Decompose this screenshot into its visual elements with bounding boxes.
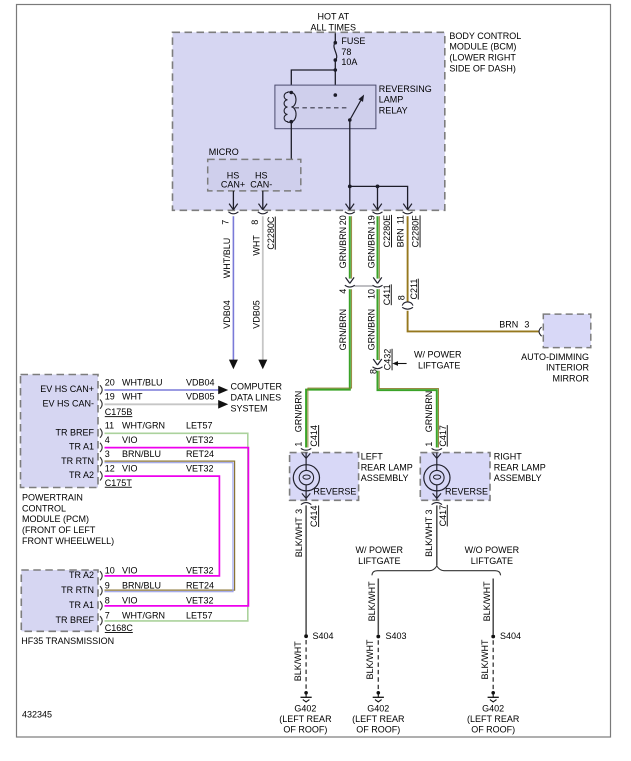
svg-text:BRN/BLU: BRN/BLU bbox=[122, 449, 161, 459]
svg-text:CONTROL: CONTROL bbox=[22, 503, 66, 513]
svg-text:8: 8 bbox=[397, 295, 407, 300]
svg-text:VIO: VIO bbox=[122, 463, 138, 473]
svg-text:SIDE OF DASH): SIDE OF DASH) bbox=[449, 63, 516, 73]
svg-text:GRN/BRN: GRN/BRN bbox=[367, 227, 377, 269]
svg-text:BLK/WHT: BLK/WHT bbox=[293, 641, 303, 682]
svg-text:8: 8 bbox=[250, 220, 260, 225]
svg-text:11: 11 bbox=[105, 421, 114, 431]
svg-text:SYSTEM: SYSTEM bbox=[231, 403, 268, 413]
right lamp connector bottom bbox=[432, 503, 442, 505]
svg-text:LIFTGATE: LIFTGATE bbox=[358, 556, 400, 566]
wire GRN/BRN pin20 upper segment bbox=[338, 216, 352, 278]
svg-text:3: 3 bbox=[524, 320, 529, 330]
svg-text:VDB05: VDB05 bbox=[186, 392, 215, 402]
inline connector C211 bbox=[397, 279, 419, 310]
svg-text:(FRONT OF LEFT: (FRONT OF LEFT bbox=[22, 525, 96, 535]
svg-text:1: 1 bbox=[293, 442, 303, 447]
PCM pin TR A1 bbox=[69, 435, 214, 452]
svg-text:EV HS CAN-: EV HS CAN- bbox=[42, 398, 94, 408]
svg-text:TR A2: TR A2 bbox=[69, 570, 94, 580]
svg-text:G402: G402 bbox=[367, 704, 389, 714]
svg-text:VET32: VET32 bbox=[186, 565, 214, 575]
BCM exit connector pin 19 bbox=[373, 204, 383, 214]
left lamp connector bottom bbox=[301, 503, 311, 505]
svg-text:3: 3 bbox=[294, 509, 304, 514]
wire GRN/BRN pin19 to right lamp bbox=[378, 371, 448, 448]
wire WHT/GRN LET57 loop bbox=[105, 433, 248, 621]
svg-text:10: 10 bbox=[105, 565, 115, 575]
svg-text:C432: C432 bbox=[383, 349, 393, 371]
svg-text:CAN-: CAN- bbox=[250, 180, 272, 190]
svg-text:7: 7 bbox=[221, 220, 231, 225]
svg-text:VET32: VET32 bbox=[186, 595, 214, 605]
wire GRN/BRN pin19 upper segment bbox=[367, 216, 380, 278]
svg-text:GRN/BRN: GRN/BRN bbox=[293, 391, 303, 433]
dashed wire to ground middle bbox=[365, 639, 378, 691]
svg-text:HOT AT: HOT AT bbox=[317, 12, 349, 22]
svg-text:C211: C211 bbox=[409, 279, 419, 300]
svg-text:BLK/WHT: BLK/WHT bbox=[294, 517, 304, 558]
svg-text:BLK/WHT: BLK/WHT bbox=[424, 516, 434, 557]
svg-text:BLK/WHT: BLK/WHT bbox=[482, 581, 492, 622]
svg-text:LET57: LET57 bbox=[186, 421, 213, 431]
svg-text:LAMP: LAMP bbox=[379, 95, 404, 105]
svg-text:20: 20 bbox=[105, 377, 115, 387]
svg-text:RELAY: RELAY bbox=[379, 105, 408, 115]
svg-text:VIO: VIO bbox=[122, 435, 138, 445]
svg-text:10: 10 bbox=[367, 289, 377, 299]
wire from hot feed to fuse bbox=[334, 33, 336, 43]
PCM pin TR A2 bbox=[69, 463, 214, 480]
junction node bbox=[334, 68, 338, 72]
svg-text:WHT: WHT bbox=[122, 392, 143, 402]
relay label bbox=[379, 84, 432, 116]
svg-text:VET32: VET32 bbox=[186, 435, 214, 445]
splice S403 bbox=[376, 631, 406, 641]
svg-text:LIFTGATE: LIFTGATE bbox=[471, 556, 513, 566]
brace split bbox=[372, 566, 501, 575]
W/O POWER LIFTGATE label (right branch) bbox=[465, 545, 520, 566]
wire WHT/BLU VDB04 vertical bbox=[222, 216, 238, 369]
body control module BCM box bbox=[173, 32, 445, 210]
svg-text:EV HS CAN+: EV HS CAN+ bbox=[40, 384, 94, 394]
splice S404 right bbox=[491, 631, 521, 641]
right rear lamp assembly box bbox=[420, 452, 546, 501]
wire fuse to junction bbox=[334, 60, 336, 95]
svg-text:W/O POWER: W/O POWER bbox=[465, 545, 520, 555]
svg-text:TR RTN: TR RTN bbox=[61, 585, 94, 595]
wire WHT VDB05 vertical bbox=[252, 216, 268, 369]
svg-text:78: 78 bbox=[341, 47, 351, 57]
svg-text:AUTO-DIMMING: AUTO-DIMMING bbox=[521, 352, 589, 362]
HF35 pin TR A1 bbox=[69, 595, 214, 610]
svg-text:(LEFT REAR: (LEFT REAR bbox=[279, 714, 332, 724]
left lamp connector top bbox=[301, 448, 311, 450]
wire switch to junction row bbox=[349, 120, 351, 186]
svg-text:C414: C414 bbox=[309, 505, 319, 527]
HF35 transmission box bbox=[21, 570, 98, 631]
wire VIO VET32 inner loop bbox=[105, 476, 220, 576]
svg-text:GRN/BRN: GRN/BRN bbox=[338, 227, 348, 269]
inline connector C432 bbox=[369, 349, 393, 374]
wire coil to micro bbox=[290, 122, 292, 160]
svg-text:FUSE: FUSE bbox=[341, 36, 365, 46]
svg-text:S404: S404 bbox=[313, 631, 334, 641]
svg-text:GRN/BRN: GRN/BRN bbox=[424, 391, 434, 433]
svg-text:WHT/BLU: WHT/BLU bbox=[222, 238, 232, 279]
wire BLK/WHT left lamp to splice S404 bbox=[294, 505, 319, 634]
svg-text:RIGHT: RIGHT bbox=[494, 452, 523, 462]
svg-text:TR A1: TR A1 bbox=[69, 600, 94, 610]
splice S404 left bbox=[304, 631, 333, 641]
ground G402 middle bbox=[352, 691, 405, 735]
BCM exit connector pin 7 bbox=[228, 204, 238, 214]
svg-text:REVERSE: REVERSE bbox=[313, 487, 356, 497]
PCM pin EV HS CAN+ bbox=[40, 377, 214, 394]
node COMPUTER DATA LINES SYSTEM bbox=[231, 382, 283, 414]
svg-text:(LEFT REAR: (LEFT REAR bbox=[352, 714, 405, 724]
svg-text:OF ROOF): OF ROOF) bbox=[283, 725, 327, 735]
svg-text:VDB05: VDB05 bbox=[252, 300, 262, 329]
ground G402 right bbox=[467, 691, 520, 735]
svg-text:OF ROOF): OF ROOF) bbox=[471, 725, 515, 735]
BCM label bbox=[449, 31, 521, 73]
svg-text:BRN/BLU: BRN/BLU bbox=[122, 580, 161, 590]
svg-text:MODULE (PCM): MODULE (PCM) bbox=[22, 514, 89, 524]
svg-text:G402: G402 bbox=[294, 704, 316, 714]
svg-text:TR BREF: TR BREF bbox=[55, 615, 94, 625]
HF35 pin TR RTN bbox=[61, 580, 214, 595]
ground G402 left bbox=[279, 691, 332, 735]
HF35 pin TR A2 bbox=[69, 565, 214, 580]
svg-text:REAR LAMP: REAR LAMP bbox=[361, 462, 413, 472]
wire GRN/BRN pin19 lower segment bbox=[367, 289, 380, 360]
svg-text:3: 3 bbox=[105, 449, 110, 459]
svg-text:WHT/GRN: WHT/GRN bbox=[122, 421, 165, 431]
reversing lamp relay box bbox=[275, 85, 376, 129]
svg-text:FRONT WHEELWELL): FRONT WHEELWELL) bbox=[22, 536, 114, 546]
fuse 78 10A bbox=[334, 36, 366, 67]
wire BRN pin11 upper segment bbox=[407, 216, 409, 302]
svg-text:MODULE (BCM): MODULE (BCM) bbox=[449, 42, 516, 52]
svg-text:C2280C: C2280C bbox=[266, 216, 276, 250]
svg-text:MIRROR: MIRROR bbox=[553, 373, 590, 383]
PCM label bbox=[22, 493, 114, 546]
svg-text:C175T: C175T bbox=[105, 478, 133, 488]
auto-dimming interior mirror box bbox=[543, 314, 591, 348]
HF35 pin TR BREF bbox=[55, 610, 212, 625]
mirror label bbox=[521, 352, 589, 384]
wire VIO VET32 outer loop bbox=[105, 448, 249, 606]
svg-text:TR A2: TR A2 bbox=[69, 470, 94, 480]
svg-text:REVERSING: REVERSING bbox=[379, 84, 432, 94]
svg-text:LIFTGATE: LIFTGATE bbox=[418, 360, 460, 370]
svg-text:3: 3 bbox=[424, 509, 434, 514]
powertrain control module PCM box bbox=[21, 375, 99, 488]
wire BRN/BLU RET24 loop bbox=[105, 461, 235, 592]
PCM pin TR RTN bbox=[61, 449, 214, 466]
right lamp connector top bbox=[432, 448, 442, 450]
svg-text:C414: C414 bbox=[309, 425, 319, 447]
svg-text:BLK/WHT: BLK/WHT bbox=[365, 639, 375, 680]
svg-text:C175B: C175B bbox=[105, 407, 133, 417]
wire WHT to data lines bbox=[105, 403, 219, 405]
svg-text:BODY CONTROL: BODY CONTROL bbox=[449, 31, 521, 41]
svg-text:REAR LAMP: REAR LAMP bbox=[494, 462, 546, 472]
svg-text:S403: S403 bbox=[386, 631, 407, 641]
svg-text:8: 8 bbox=[105, 595, 110, 605]
svg-text:19: 19 bbox=[105, 392, 115, 402]
inline connector C411 bbox=[338, 277, 392, 305]
svg-text:VET32: VET32 bbox=[186, 463, 214, 473]
BCM exit connector pin 20 bbox=[345, 204, 355, 214]
svg-text:10A: 10A bbox=[341, 57, 357, 67]
svg-text:7: 7 bbox=[105, 610, 110, 620]
svg-text:WHT/GRN: WHT/GRN bbox=[122, 610, 165, 620]
svg-text:ALL TIMES: ALL TIMES bbox=[311, 22, 357, 32]
svg-text:C168C: C168C bbox=[105, 623, 134, 633]
micro pin HS CAN- bbox=[250, 170, 272, 189]
svg-text:TR BREF: TR BREF bbox=[55, 427, 94, 437]
svg-text:C417: C417 bbox=[438, 425, 448, 447]
W/ POWER LIFTGATE label (middle branch) bbox=[356, 545, 404, 566]
left rear lamp assembly box bbox=[290, 452, 413, 501]
svg-text:VIO: VIO bbox=[122, 595, 138, 605]
wire junction to coil bbox=[291, 70, 335, 93]
svg-text:ASSEMBLY: ASSEMBLY bbox=[361, 473, 409, 483]
svg-text:BRN: BRN bbox=[499, 320, 518, 330]
svg-text:C411: C411 bbox=[382, 284, 392, 305]
right reverse bulb bbox=[424, 453, 450, 501]
svg-text:(LEFT REAR: (LEFT REAR bbox=[467, 714, 520, 724]
micro output wires to BCM edge bbox=[232, 191, 234, 210]
svg-text:432345: 432345 bbox=[22, 710, 52, 720]
svg-text:LEFT: LEFT bbox=[361, 452, 384, 462]
wire GRN/BRN pin20 to left lamp bbox=[293, 289, 351, 447]
svg-text:VIO: VIO bbox=[122, 565, 138, 575]
relay mechanical link (dashed) bbox=[295, 107, 350, 109]
svg-text:4: 4 bbox=[338, 289, 348, 294]
relay switch bbox=[334, 93, 365, 122]
junction row wire bbox=[348, 185, 408, 210]
svg-text:W/ POWER: W/ POWER bbox=[356, 545, 404, 555]
svg-text:TR RTN: TR RTN bbox=[61, 456, 94, 466]
svg-text:TR A1: TR A1 bbox=[69, 442, 94, 452]
svg-text:LET57: LET57 bbox=[186, 610, 213, 620]
dashed wire to ground right bbox=[480, 639, 493, 691]
svg-text:WHT: WHT bbox=[252, 235, 262, 256]
svg-text:OF ROOF): OF ROOF) bbox=[356, 725, 400, 735]
svg-text:MICRO: MICRO bbox=[209, 147, 239, 157]
relay coil bbox=[284, 91, 296, 124]
svg-text:VDB04: VDB04 bbox=[186, 377, 215, 387]
svg-text:REVERSE: REVERSE bbox=[445, 487, 488, 497]
svg-text:BLK/WHT: BLK/WHT bbox=[367, 581, 377, 622]
svg-text:11: 11 bbox=[395, 215, 405, 224]
svg-text:1: 1 bbox=[424, 442, 434, 447]
svg-text:S404: S404 bbox=[500, 631, 521, 641]
micro box bbox=[208, 159, 301, 191]
wire middle branch to S403 bbox=[367, 579, 378, 635]
svg-text:G402: G402 bbox=[482, 704, 504, 714]
wire WHT/BLU to data lines bbox=[105, 389, 219, 391]
svg-text:INTERIOR: INTERIOR bbox=[546, 363, 590, 373]
svg-text:DATA LINES: DATA LINES bbox=[231, 392, 282, 402]
left reverse bulb bbox=[293, 453, 319, 501]
svg-text:19: 19 bbox=[367, 215, 377, 225]
svg-text:RET24: RET24 bbox=[186, 449, 214, 459]
svg-text:4: 4 bbox=[105, 435, 110, 445]
svg-text:POWERTRAIN: POWERTRAIN bbox=[22, 493, 83, 503]
svg-text:ASSEMBLY: ASSEMBLY bbox=[494, 473, 542, 483]
svg-text:BLK/WHT: BLK/WHT bbox=[480, 639, 490, 680]
PCM pin EV HS CAN- bbox=[42, 392, 214, 409]
svg-text:CAN+: CAN+ bbox=[221, 180, 245, 190]
svg-text:C417: C417 bbox=[438, 505, 448, 527]
svg-text:WHT/BLU: WHT/BLU bbox=[122, 377, 163, 387]
node HOT AT ALL TIMES bbox=[311, 12, 357, 33]
W/ POWER LIFTGATE callout at C432 bbox=[392, 349, 462, 370]
svg-text:GRN/BRN: GRN/BRN bbox=[367, 309, 377, 351]
micro pin HS CAN+ bbox=[221, 170, 245, 189]
PCM pin TR BREF bbox=[55, 421, 212, 438]
svg-text:HF35 TRANSMISSION: HF35 TRANSMISSION bbox=[21, 636, 114, 646]
wire right branch to S404 bbox=[482, 579, 493, 635]
svg-text:C2280F: C2280F bbox=[411, 215, 421, 248]
svg-text:C2280E: C2280E bbox=[382, 215, 392, 248]
svg-text:BRN: BRN bbox=[395, 228, 405, 247]
svg-text:VDB04: VDB04 bbox=[222, 300, 232, 329]
dashed wire to ground left bbox=[293, 640, 306, 691]
svg-text:(LOWER RIGHT: (LOWER RIGHT bbox=[449, 53, 516, 63]
svg-text:RET24: RET24 bbox=[186, 580, 214, 590]
svg-text:W/ POWER: W/ POWER bbox=[414, 349, 462, 359]
svg-text:GRN/BRN: GRN/BRN bbox=[338, 309, 348, 351]
BCM exit connector pin 8 bbox=[258, 204, 268, 214]
svg-text:12: 12 bbox=[105, 463, 115, 473]
wire BLK/WHT right lamp down bbox=[424, 505, 448, 566]
wire BRN to mirror bbox=[408, 311, 539, 332]
BCM exit connector pin 11 bbox=[403, 204, 413, 214]
svg-text:COMPUTER: COMPUTER bbox=[231, 382, 283, 392]
svg-text:20: 20 bbox=[338, 215, 348, 225]
mirror connector bbox=[539, 327, 542, 336]
svg-text:9: 9 bbox=[105, 580, 110, 590]
